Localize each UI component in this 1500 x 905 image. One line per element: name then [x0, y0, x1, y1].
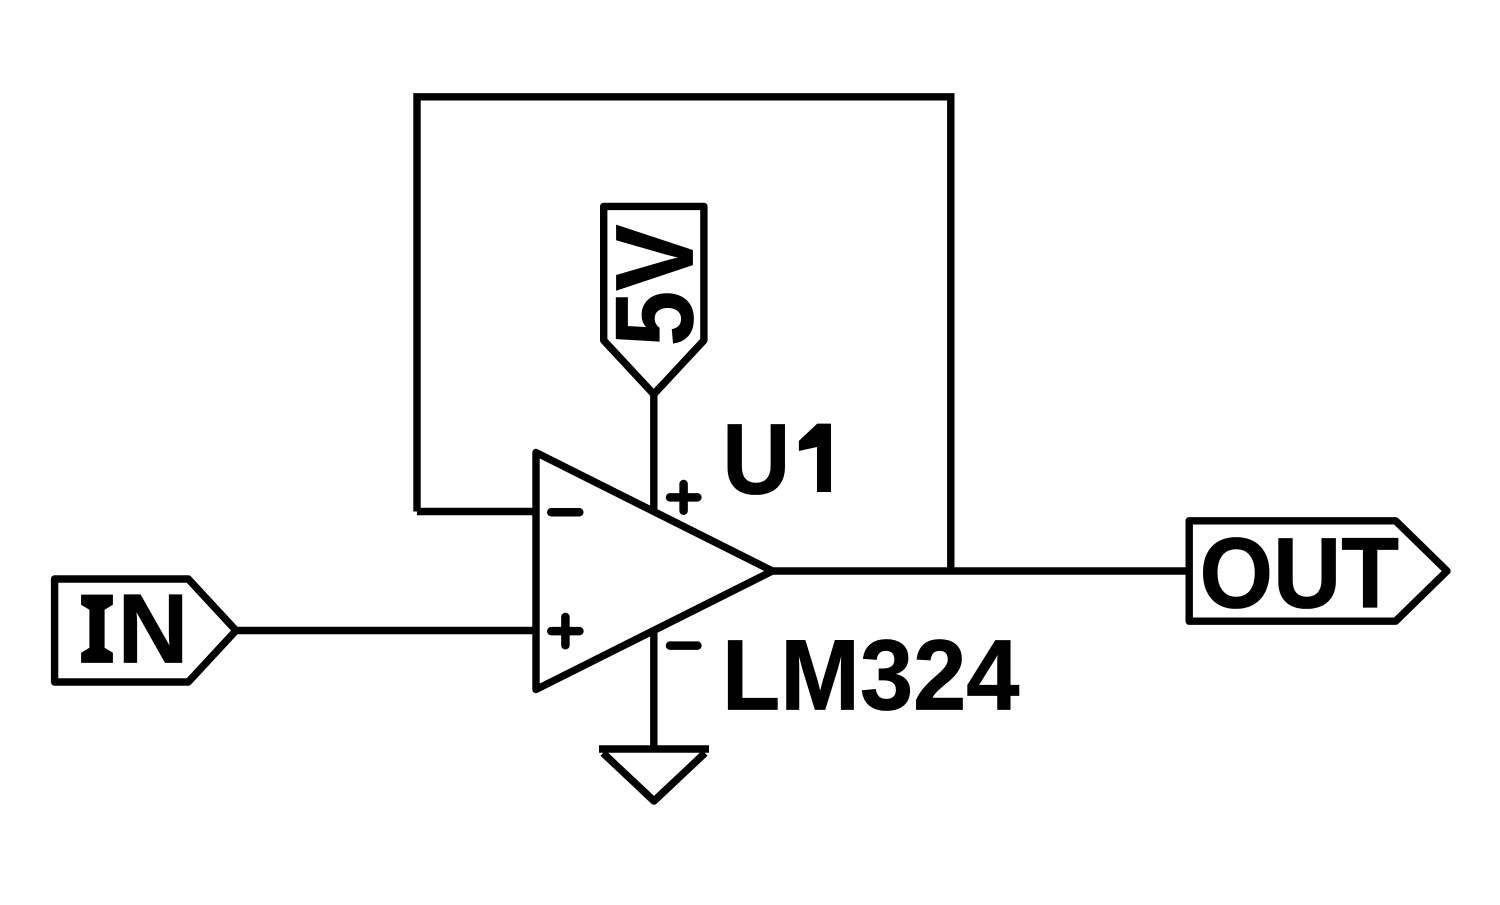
svg-text:OUT: OUT	[1200, 517, 1400, 629]
svg-text:5V: 5V	[594, 224, 717, 346]
svg-text:U: U	[722, 403, 790, 515]
svg-text:N: N	[118, 574, 189, 684]
svg-text:LM324: LM324	[722, 620, 1020, 732]
